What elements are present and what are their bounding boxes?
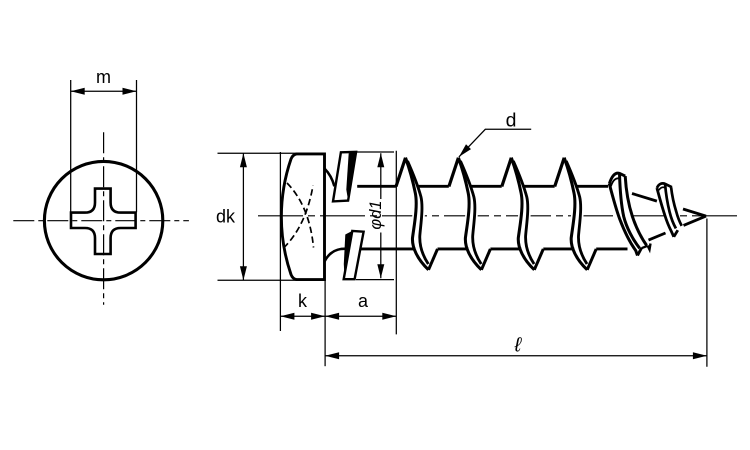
svg-text:k: k: [298, 291, 308, 311]
svg-text:d: d: [506, 110, 517, 132]
svg-text:dk: dk: [216, 207, 236, 227]
svg-text:φd1: φd1: [367, 200, 385, 229]
svg-text:m: m: [96, 67, 111, 87]
svg-text:a: a: [358, 291, 369, 311]
